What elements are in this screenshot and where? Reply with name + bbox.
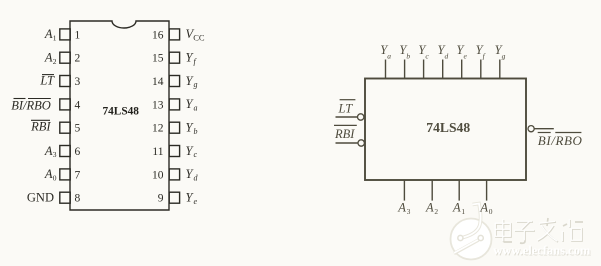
svg-text:2: 2 <box>75 53 81 65</box>
svg-text:1: 1 <box>75 29 81 41</box>
svg-text:0: 0 <box>489 207 493 216</box>
svg-text:12: 12 <box>152 123 164 135</box>
svg-text:1: 1 <box>461 207 465 216</box>
svg-text:4: 4 <box>75 99 81 111</box>
svg-text:0: 0 <box>53 174 57 183</box>
svg-text:A: A <box>44 167 53 181</box>
svg-text:5: 5 <box>75 123 81 135</box>
svg-text:BI/RBO: BI/RBO <box>11 98 51 112</box>
svg-text:BI/RBO: BI/RBO <box>538 133 583 148</box>
svg-text:g: g <box>502 52 506 61</box>
svg-text:RBI: RBI <box>334 127 355 141</box>
svg-text:74LS48: 74LS48 <box>103 106 140 118</box>
svg-text:c: c <box>194 150 198 159</box>
svg-text:A: A <box>452 200 461 214</box>
svg-text:www.elecfans.com: www.elecfans.com <box>493 244 591 258</box>
svg-text:b: b <box>406 52 410 61</box>
svg-text:A: A <box>397 200 406 214</box>
svg-text:74LS48: 74LS48 <box>426 120 470 135</box>
svg-text:11: 11 <box>152 146 163 158</box>
svg-text:b: b <box>194 127 198 136</box>
svg-text:9: 9 <box>158 193 164 205</box>
svg-text:7: 7 <box>75 169 81 181</box>
svg-text:d: d <box>445 52 449 61</box>
svg-text:2: 2 <box>53 57 57 66</box>
svg-text:8: 8 <box>75 193 81 205</box>
svg-text:16: 16 <box>152 29 164 41</box>
svg-text:CC: CC <box>193 32 205 42</box>
svg-text:A: A <box>479 200 488 214</box>
svg-text:3: 3 <box>75 76 81 88</box>
svg-text:GND: GND <box>27 191 54 205</box>
svg-text:A: A <box>44 51 53 65</box>
svg-text:g: g <box>194 80 198 89</box>
svg-text:A: A <box>44 144 53 158</box>
svg-text:3: 3 <box>407 207 411 216</box>
svg-text:1: 1 <box>53 34 57 43</box>
svg-text:10: 10 <box>152 169 164 181</box>
svg-text:LT: LT <box>39 74 55 88</box>
svg-text:6: 6 <box>75 146 81 158</box>
svg-text:2: 2 <box>434 207 438 216</box>
svg-text:a: a <box>194 104 198 113</box>
svg-text:A: A <box>44 27 53 41</box>
svg-text:a: a <box>387 52 391 61</box>
svg-text:15: 15 <box>152 53 164 65</box>
svg-text:A: A <box>425 200 434 214</box>
svg-text:3: 3 <box>53 150 57 159</box>
svg-text:LT: LT <box>338 102 354 116</box>
svg-text:RBI: RBI <box>30 120 51 134</box>
svg-text:13: 13 <box>152 99 164 111</box>
svg-text:e: e <box>194 197 198 206</box>
svg-text:14: 14 <box>152 76 164 88</box>
